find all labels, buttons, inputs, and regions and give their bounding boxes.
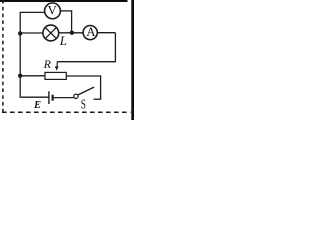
svg-text:V: V: [48, 4, 57, 18]
svg-text:E: E: [33, 100, 41, 111]
wire switch right stub: [94, 98, 102, 100]
resistor R body: [45, 72, 66, 79]
rheostat wiper arrow shaft: [56, 62, 58, 68]
wire bottom left to battery: [20, 96, 49, 98]
svg-text:S: S: [81, 97, 86, 112]
wire right vertical lower: [100, 75, 102, 99]
wire lamp to ammeter: [59, 32, 83, 34]
wire lamp left: [20, 32, 43, 34]
node junction dot left-lamp: [18, 31, 22, 35]
voltmeter U1 circle: [45, 3, 61, 19]
wire voltmeter right: [60, 10, 72, 12]
wire right down to node: [71, 11, 73, 33]
wire rheostat wiper horizontal: [57, 61, 116, 63]
battery E long plate: [48, 91, 50, 104]
switch S pivot circle: [74, 94, 78, 98]
switch S blade: [78, 87, 94, 95]
lamp L circle: [43, 25, 59, 41]
node junction dot left-resistor: [18, 74, 22, 78]
svg-text:R: R: [43, 57, 52, 71]
border right (solid): [131, 0, 134, 120]
wire right vertical upper: [114, 33, 116, 62]
wire resistor right: [66, 75, 100, 77]
rheostat wiper arrowhead: [55, 66, 59, 70]
wire left vertical: [19, 12, 21, 97]
wire resistor left: [20, 75, 45, 77]
wire top-left to voltmeter: [20, 11, 45, 13]
wire ammeter right: [97, 32, 115, 34]
svg-text:L: L: [59, 33, 67, 48]
node junction dot voltmeter-lamp: [70, 31, 74, 35]
ammeter U2 circle: [83, 25, 97, 39]
svg-text:A: A: [86, 24, 96, 39]
wire battery to switch: [53, 97, 74, 99]
border bottom (dashed): [2, 111, 131, 113]
border top (solid): [0, 0, 128, 2]
battery E short plate: [51, 95, 53, 101]
lamp cross: [45, 27, 56, 38]
border left (dashed): [2, 0, 4, 113]
